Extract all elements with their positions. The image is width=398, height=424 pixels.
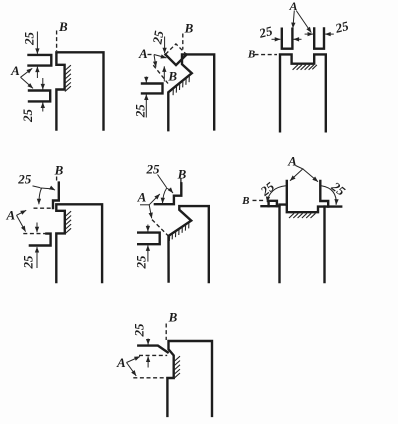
svg-text:25: 25 (257, 179, 278, 200)
workpiece with 45-deg notch (fig.2) (168, 54, 214, 130)
axis line B (fig.6) (253, 199, 265, 201)
svg-text:B: B (167, 69, 177, 84)
right bent tab (fig.6) (320, 181, 328, 207)
hatching on 45-deg notch (fig.5) (169, 223, 188, 241)
svg-text:25: 25 (131, 323, 146, 338)
phantom 45-deg line (fig.5) (152, 220, 169, 237)
left tab (fig.3) (282, 29, 293, 49)
svg-text:25: 25 (133, 255, 148, 270)
axis line B (fig.7) (165, 324, 167, 341)
svg-text:B: B (168, 309, 178, 324)
hatching on 45-deg notch (fig.2) (173, 76, 189, 95)
phantom line of flat tab (fig.4) (34, 207, 53, 209)
right plate edge (fig.6) (323, 207, 325, 282)
axis line B (fig.4) (56, 177, 58, 183)
hatching on notch (fig.1) (65, 65, 71, 91)
slotted plate section (fig.6) (262, 205, 342, 213)
rotated tab hidden sides (fig.2) (166, 44, 187, 54)
svg-text:B: B (54, 162, 64, 177)
svg-text:A: A (5, 207, 15, 222)
hidden tab line 1 (fig.7) (139, 354, 167, 356)
svg-text:B: B (184, 20, 194, 35)
hatching on notch (fig.4) (65, 211, 71, 233)
dimension 25 lower (fig.5) (147, 225, 149, 232)
rotated tab solid sides (fig.2) (166, 55, 187, 66)
soldered tab top edge (fig.7) (138, 346, 167, 353)
svg-text:25: 25 (20, 255, 35, 270)
svg-text:B: B (177, 166, 187, 181)
axis line B (fig.1) (56, 31, 58, 52)
hatching in slot (fig.3) (293, 65, 317, 70)
axis line B (fig.5) (180, 179, 182, 183)
svg-text:A: A (10, 63, 20, 78)
workpiece with 45-deg notch (fig.5) (169, 206, 209, 282)
hidden tab line 2 (fig.7) (133, 377, 167, 379)
svg-text:25: 25 (21, 32, 36, 47)
svg-text:25: 25 (20, 109, 35, 124)
workpiece with notched edge (fig.4) (56, 204, 102, 282)
bent-up tab on base (fig.5) (155, 183, 181, 204)
svg-text:B: B (241, 195, 249, 207)
svg-text:25: 25 (328, 178, 349, 199)
lower tab partly hidden (fig.4) (30, 234, 51, 246)
workpiece with notched edge (fig.1) (56, 52, 103, 129)
svg-text:A: A (116, 355, 126, 370)
workpiece final joint (fig.7) (167, 341, 212, 416)
upper tab (fig.1) (29, 55, 52, 66)
axis line B vertical (fig.2) (182, 34, 184, 50)
svg-text:25: 25 (149, 29, 166, 46)
left bent tab (fig.6) (269, 181, 287, 206)
left plate edge (fig.6) (278, 205, 280, 282)
svg-text:A: A (138, 46, 148, 61)
svg-text:25: 25 (146, 161, 161, 176)
svg-text:B: B (247, 49, 255, 61)
svg-text:25: 25 (133, 104, 148, 119)
dimension 25 lower (fig.1) (42, 78, 44, 90)
axis line B (fig.3) (255, 54, 278, 56)
right tab (fig.3) (314, 28, 324, 48)
lower tab (fig.5) (138, 233, 160, 245)
svg-text:25: 25 (333, 18, 351, 36)
hatching (fig.7) (174, 356, 180, 378)
workpiece with slot on top (fig.3) (280, 54, 326, 131)
hatching in slot (fig.6) (289, 213, 316, 218)
svg-text:25: 25 (257, 23, 275, 41)
svg-text:A: A (137, 190, 147, 205)
lower tab (fig.2) (142, 84, 163, 94)
dimension 25 lower (fig.4) (36, 223, 38, 233)
lower tab (fig.1) (29, 91, 50, 102)
dimension 25 lower (fig.2) (145, 77, 147, 83)
svg-text:25: 25 (17, 171, 32, 186)
bend line B diagonal (fig.2) (153, 65, 168, 83)
bent-up tab (fig.4) (53, 183, 59, 208)
svg-text:B: B (58, 19, 68, 34)
